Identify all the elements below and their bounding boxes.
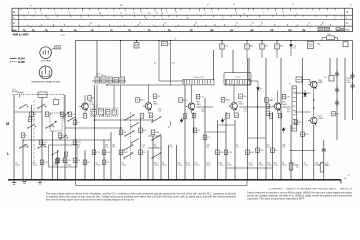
svg-text:R6: R6 xyxy=(169,44,171,46)
svg-text:AM6 & LW55: AM6 & LW55 xyxy=(13,32,30,36)
svg-text:120: 120 xyxy=(296,167,299,169)
svg-text:52: 52 xyxy=(331,30,333,32)
svg-text:1.8k: 1.8k xyxy=(172,63,175,65)
svg-text:68k: 68k xyxy=(33,163,36,165)
svg-text:C11: C11 xyxy=(200,96,203,98)
svg-text:C5: C5 xyxy=(207,137,209,139)
svg-text:47k: 47k xyxy=(178,163,181,165)
svg-text:L4 T1 L5: L4 T1 L5 xyxy=(96,74,103,76)
svg-text:0.04: 0.04 xyxy=(293,48,296,50)
svg-text:MHz: MHz xyxy=(345,29,349,31)
svg-text:R22: R22 xyxy=(336,114,339,116)
svg-text:R30: R30 xyxy=(328,34,331,36)
svg-text:25wkg: 25wkg xyxy=(292,165,297,167)
svg-text:C4: C4 xyxy=(43,145,45,147)
svg-text:C23: C23 xyxy=(220,152,223,154)
svg-text:K: K xyxy=(346,21,348,25)
svg-text:A.1: A.1 xyxy=(154,62,157,65)
svg-text:0.02: 0.02 xyxy=(267,163,271,165)
svg-text:220: 220 xyxy=(154,163,157,165)
svg-text:R14: R14 xyxy=(123,152,126,154)
svg-text:25wkg: 25wkg xyxy=(15,165,20,167)
svg-text:2SA12: 2SA12 xyxy=(318,117,323,120)
svg-text:C18: C18 xyxy=(250,152,253,154)
svg-text:C8: C8 xyxy=(72,114,74,116)
svg-text:COIL: COIL xyxy=(347,80,351,82)
svg-text:2SA12: 2SA12 xyxy=(282,103,287,106)
svg-text:R23: R23 xyxy=(305,134,308,136)
svg-text:o: o xyxy=(121,3,123,7)
svg-text:25wkg: 25wkg xyxy=(96,165,101,167)
svg-text:OC44: OC44 xyxy=(89,104,94,106)
svg-text:C9: C9 xyxy=(197,130,199,132)
svg-text:C17: C17 xyxy=(287,109,290,111)
svg-text:25wkg: 25wkg xyxy=(206,165,211,167)
svg-text:UNDERSIDE CONNECTIONS: UNDERSIDE CONNECTIONS xyxy=(32,82,61,84)
svg-text:C2: C2 xyxy=(15,163,17,165)
svg-text:25wkg: 25wkg xyxy=(162,165,167,167)
svg-text:C24: C24 xyxy=(293,46,296,48)
svg-text:25wkg: 25wkg xyxy=(66,165,71,167)
svg-text:2SA12: 2SA12 xyxy=(153,103,158,106)
svg-text:25wkg: 25wkg xyxy=(227,165,232,167)
svg-text:TOP VIEW: TOP VIEW xyxy=(41,61,51,63)
svg-text:0.04: 0.04 xyxy=(206,163,210,165)
svg-text:0.1: 0.1 xyxy=(54,163,57,165)
svg-text:4k: 4k xyxy=(236,145,238,147)
svg-text:5k: 5k xyxy=(96,163,98,165)
svg-text:220: 220 xyxy=(274,163,277,165)
svg-text:C15: C15 xyxy=(201,109,204,111)
svg-text:T5: T5 xyxy=(289,84,291,86)
svg-text:K: K xyxy=(13,21,15,25)
svg-text:L7: L7 xyxy=(25,135,27,137)
svg-text:3 ohm: 3 ohm xyxy=(347,82,352,84)
svg-text:47: 47 xyxy=(304,163,306,165)
svg-text:C1: C1 xyxy=(54,98,56,100)
svg-text:C8: C8 xyxy=(143,152,145,154)
svg-text:C16: C16 xyxy=(106,152,109,154)
svg-text:100: 100 xyxy=(259,163,262,165)
svg-text:39k: 39k xyxy=(105,145,108,147)
svg-text:25: 25 xyxy=(170,145,172,147)
svg-text:25wkg: 25wkg xyxy=(54,165,59,167)
svg-text:C11: C11 xyxy=(225,46,228,48)
svg-text:L8: L8 xyxy=(348,175,350,177)
svg-text:R21: R21 xyxy=(324,77,327,79)
svg-text:C16: C16 xyxy=(244,109,247,111)
svg-text:R11: R11 xyxy=(225,100,228,102)
svg-text:1k: 1k xyxy=(282,163,284,165)
svg-text:C26: C26 xyxy=(282,145,285,147)
svg-text:25wkg: 25wkg xyxy=(186,165,191,167)
svg-text:L2: L2 xyxy=(62,135,64,137)
svg-text:0.04: 0.04 xyxy=(244,111,247,113)
svg-text:R14: R14 xyxy=(269,100,272,102)
svg-text:R6: R6 xyxy=(265,46,267,48)
svg-text:25wkg: 25wkg xyxy=(249,165,254,167)
svg-text:R2: R2 xyxy=(87,162,89,164)
svg-text:L6: L6 xyxy=(77,122,79,124)
svg-text:25wkg: 25wkg xyxy=(304,165,309,167)
svg-text:R2: R2 xyxy=(123,132,125,134)
svg-text:2SA12: 2SA12 xyxy=(318,81,323,84)
svg-text:25wkg: 25wkg xyxy=(274,165,279,167)
svg-text:C17: C17 xyxy=(286,96,289,98)
svg-text:C3: C3 xyxy=(106,162,108,164)
svg-text:R5: R5 xyxy=(140,100,142,102)
svg-text:25wkg: 25wkg xyxy=(259,165,264,167)
svg-text:25wkg: 25wkg xyxy=(282,165,287,167)
svg-text:C3: C3 xyxy=(32,119,34,121)
svg-text:R8: R8 xyxy=(183,100,185,102)
svg-text:0.01: 0.01 xyxy=(186,163,190,165)
svg-text:0.5: 0.5 xyxy=(267,145,270,147)
svg-text:L2 L1: L2 L1 xyxy=(12,89,16,91)
svg-text:0.7: 0.7 xyxy=(142,100,145,102)
svg-text:25wkg: 25wkg xyxy=(122,165,127,167)
svg-text:25: 25 xyxy=(195,163,197,165)
svg-text:B+: B+ xyxy=(175,39,177,41)
svg-text:S: S xyxy=(13,10,15,14)
svg-text:1k: 1k xyxy=(162,163,164,165)
svg-text:C11: C11 xyxy=(96,152,99,154)
svg-text:R9: R9 xyxy=(275,150,277,152)
svg-text:4.7k: 4.7k xyxy=(249,163,253,165)
svg-text:0.25: 0.25 xyxy=(325,163,329,165)
svg-text:1k: 1k xyxy=(122,163,124,165)
svg-text:three under the M range and th: three under the M range and the volume c… xyxy=(46,198,134,201)
svg-text:C8: C8 xyxy=(157,96,159,98)
svg-text:C14: C14 xyxy=(243,96,246,98)
svg-text:SPEECH: SPEECH xyxy=(347,78,354,80)
svg-text:8.2k: 8.2k xyxy=(219,163,223,165)
svg-text:0.04: 0.04 xyxy=(201,111,204,113)
svg-text:R18: R18 xyxy=(143,130,146,132)
svg-text:C17: C17 xyxy=(142,145,145,147)
svg-text:0.1: 0.1 xyxy=(227,163,230,165)
svg-text:R18: R18 xyxy=(155,132,158,134)
svg-text:expected. The case temperatur: expected. The case temperature was about… xyxy=(247,198,305,201)
svg-text:470: 470 xyxy=(77,145,80,147)
svg-text:1.2k: 1.2k xyxy=(105,113,108,115)
svg-text:S: S xyxy=(346,10,348,14)
svg-text:25wkg: 25wkg xyxy=(315,165,320,167)
svg-text:C24: C24 xyxy=(260,150,263,152)
svg-text:0.7: 0.7 xyxy=(185,100,188,102)
svg-text:L4: L4 xyxy=(34,114,36,116)
svg-text:+5: +5 xyxy=(119,177,121,179)
svg-text:100: 100 xyxy=(315,163,318,165)
svg-text:25wkg: 25wkg xyxy=(33,165,38,167)
svg-text:C11: C11 xyxy=(112,145,115,147)
svg-text:0.04: 0.04 xyxy=(287,111,290,113)
svg-text:R4: R4 xyxy=(250,46,252,48)
svg-text:25wkg: 25wkg xyxy=(267,165,272,167)
svg-text:25wkg: 25wkg xyxy=(195,165,200,167)
svg-text:C8: C8 xyxy=(77,160,79,162)
svg-text:25wkg: 25wkg xyxy=(178,165,183,167)
svg-text:0.5: 0.5 xyxy=(292,163,295,165)
svg-text:82: 82 xyxy=(66,163,68,165)
svg-text:T3 IFT2: T3 IFT2 xyxy=(235,77,241,79)
svg-text:25wkg: 25wkg xyxy=(325,165,330,167)
svg-text:C9: C9 xyxy=(92,98,94,100)
svg-text:2SA12: 2SA12 xyxy=(196,103,201,106)
svg-text:R2: R2 xyxy=(24,145,26,147)
svg-text:C15: C15 xyxy=(44,162,47,164)
svg-text:D1: D1 xyxy=(260,89,262,91)
svg-text:C14: C14 xyxy=(158,109,161,111)
svg-text:0.04: 0.04 xyxy=(158,111,161,113)
svg-text:2SA12: 2SA12 xyxy=(238,103,243,106)
svg-text:B485: B485 xyxy=(18,60,25,64)
svg-text:C19: C19 xyxy=(228,152,231,154)
svg-text:COVERED DANDY PLAYMASTER MO: COVERED DANDY PLAYMASTER MODEL AB70 PAGE… xyxy=(268,188,353,191)
svg-text:R3: R3 xyxy=(298,122,300,124)
svg-text:C20: C20 xyxy=(206,145,209,147)
svg-text:25wkg: 25wkg xyxy=(154,165,159,167)
svg-text:25wkg: 25wkg xyxy=(219,165,224,167)
svg-text:T2 465kc IFT1: T2 465kc IFT1 xyxy=(193,77,204,79)
svg-text:8k: 8k xyxy=(154,145,156,147)
svg-text:R11: R11 xyxy=(280,46,283,48)
